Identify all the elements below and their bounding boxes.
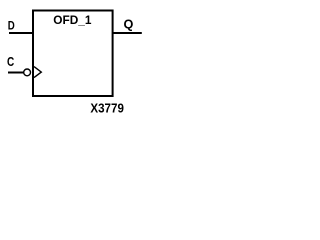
wire D input — [9, 32, 33, 34]
svg-text:X3779: X3779 — [90, 102, 124, 116]
wire Q output — [113, 32, 142, 34]
svg-text:C: C — [7, 54, 15, 69]
wire C input — [8, 72, 24, 74]
flip-flop body U1 (OFD_1 symbol outline) — [33, 11, 113, 97]
svg-text:D: D — [8, 19, 15, 33]
clock edge triangle — [34, 67, 41, 78]
svg-text:Q: Q — [124, 17, 134, 32]
inversion bubble on C — [24, 69, 31, 76]
svg-text:OFD_1: OFD_1 — [53, 13, 92, 27]
